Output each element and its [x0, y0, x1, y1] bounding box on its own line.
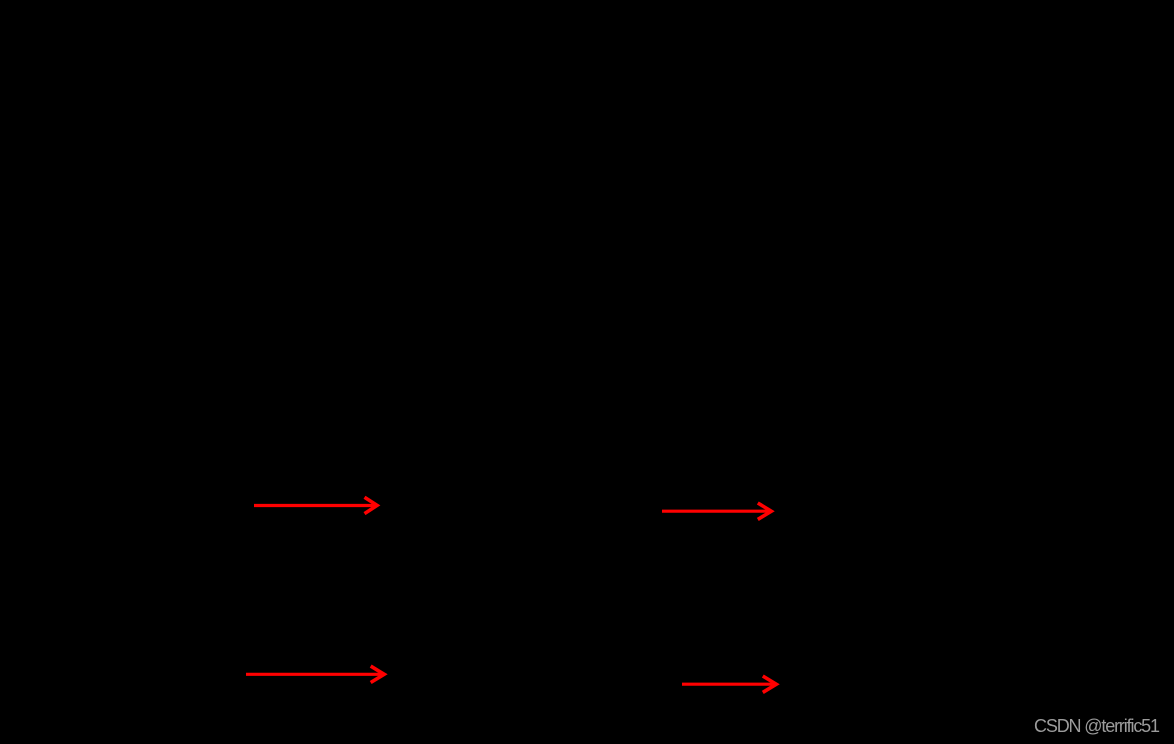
reaction arrow 2 (upper right): [662, 503, 772, 519]
reaction arrow 4 (lower right): [682, 676, 777, 692]
reaction arrow 3 (lower left): [246, 666, 385, 682]
reaction arrow 1 (upper left): [254, 497, 377, 513]
watermark CSDN @terrific51: [1034, 717, 1159, 735]
